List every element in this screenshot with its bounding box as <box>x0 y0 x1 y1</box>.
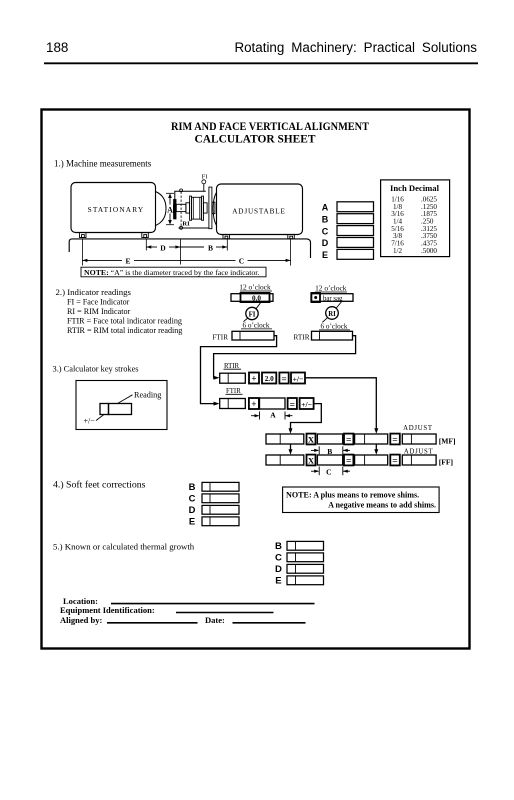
svg-text:E: E <box>275 575 282 586</box>
dimension A label <box>167 205 174 214</box>
svg-text:FI = Face Indicator: FI = Face Indicator <box>67 298 130 307</box>
svg-text:A negative means to add shims.: A negative means to add shims. <box>328 501 436 510</box>
baseplate ground line <box>69 239 310 258</box>
svg-text:Inch Decimal: Inch Decimal <box>390 183 440 193</box>
svg-text:C: C <box>322 226 329 236</box>
bracket clamp plate <box>173 199 176 219</box>
MF equals key 1 <box>344 434 353 445</box>
svg-text:A: A <box>167 206 173 215</box>
svg-text:.5000: .5000 <box>421 247 437 255</box>
coupling left flange <box>190 196 192 220</box>
aligned by line <box>107 622 198 624</box>
svg-text:RI = RIM Indicator: RI = RIM Indicator <box>67 307 131 316</box>
RTIR row underline <box>224 368 242 370</box>
legend +/- pointer <box>96 415 104 421</box>
svg-text:NOTE: “A” is the diameter trac: NOTE: “A” is the diameter traced by the … <box>84 268 259 277</box>
FI top reading box <box>231 294 273 302</box>
svg-text:A: A <box>322 203 329 213</box>
FF adjust pair <box>402 455 436 465</box>
sheet frame <box>42 110 470 649</box>
svg-text:C: C <box>189 492 196 503</box>
svg-text:188: 188 <box>46 40 68 55</box>
FTIR equals key <box>288 398 297 409</box>
dimension E line <box>82 259 122 261</box>
svg-text:+: + <box>251 374 256 384</box>
legend box frame <box>76 381 167 430</box>
svg-text:12 o’clock: 12 o’clock <box>239 282 271 291</box>
location line <box>111 603 315 605</box>
shaft stationary <box>176 204 186 211</box>
extension tick adjustable right foot <box>290 239 292 266</box>
svg-text:E: E <box>189 515 195 526</box>
adjustable machine body <box>217 184 303 235</box>
svg-text:NOTE: A plus means to remove s: NOTE: A plus means to remove shims. <box>286 491 419 500</box>
soft foot D box <box>202 505 239 514</box>
svg-text:[FF]: [FF] <box>439 458 453 467</box>
legend sample sign box <box>100 404 109 415</box>
svg-text:FI: FI <box>202 174 208 181</box>
svg-text:RTIR = RIM total indicator rea: RTIR = RIM total indicator reading <box>67 326 182 335</box>
measurement C box <box>337 226 374 236</box>
dimension A bottom cap <box>166 224 174 226</box>
svg-text:4.) Soft feet corrections: 4.) Soft feet corrections <box>53 479 146 490</box>
thermal D box <box>287 564 324 573</box>
FF row pair1 <box>266 455 304 465</box>
svg-text:3.) Calculator key strokes: 3.) Calculator key strokes <box>53 364 139 373</box>
RI top reading box <box>311 294 353 302</box>
svg-text:D: D <box>322 238 329 248</box>
svg-text:E: E <box>125 257 130 266</box>
svg-text:[MF]: [MF] <box>439 437 456 446</box>
soft foot E box <box>202 517 239 526</box>
svg-text:6 o’clock: 6 o’clock <box>243 322 270 330</box>
svg-text:+: + <box>251 399 256 409</box>
A dimension under FTIR row <box>251 415 258 417</box>
stationary machine body <box>71 183 156 233</box>
inch decimal table frame <box>381 180 450 257</box>
wire FTIR to keystroke row <box>201 336 277 404</box>
svg-text:Aligned by:: Aligned by: <box>60 615 102 625</box>
svg-text:C: C <box>326 468 331 477</box>
svg-text:X: X <box>308 434 315 444</box>
dimension B line <box>180 246 204 248</box>
svg-text:1/2: 1/2 <box>393 247 403 255</box>
note box machine <box>81 267 266 277</box>
wire RTIR to keystroke row <box>214 336 356 378</box>
svg-text:RTIR: RTIR <box>294 333 310 341</box>
svg-text:2.0: 2.0 <box>265 375 274 383</box>
svg-text:=: = <box>281 375 286 385</box>
svg-text:D: D <box>160 243 166 252</box>
FI dial stem down <box>244 318 249 322</box>
svg-text:+/−: +/− <box>293 374 304 383</box>
MF adjust pair <box>402 434 436 444</box>
RI 6 o'clock underline <box>319 329 350 331</box>
bracket arm bottom <box>179 227 209 229</box>
wire RTIR result to MF row <box>305 378 376 430</box>
shims note box <box>283 487 440 513</box>
svg-text:2.) Indicator readings: 2.) Indicator readings <box>56 287 132 297</box>
header rule <box>44 62 478 64</box>
FTIR row reading box <box>220 399 246 409</box>
svg-text:=: = <box>290 400 295 410</box>
RTIR divide key <box>249 373 259 384</box>
swing circle bottom <box>180 226 183 229</box>
B dimension under MF row <box>311 449 318 451</box>
svg-text:0.0: 0.0 <box>252 294 261 302</box>
svg-text:C: C <box>275 552 282 563</box>
FI dial circle <box>246 307 258 319</box>
svg-text:Date:: Date: <box>205 615 225 625</box>
FTIR row underline <box>226 393 243 395</box>
svg-text:B: B <box>322 214 329 224</box>
dimension C line <box>180 259 235 261</box>
FI indicator dial <box>202 180 206 184</box>
thermal E box <box>287 576 324 585</box>
date line <box>233 622 306 624</box>
svg-text:RI: RI <box>182 221 190 228</box>
svg-text:CALCULATOR SHEET: CALCULATOR SHEET <box>195 132 316 146</box>
RI dial stem up <box>336 302 342 309</box>
svg-text:RTIR: RTIR <box>224 363 240 370</box>
RI dial circle <box>326 307 339 320</box>
extension tick centerline <box>179 239 181 265</box>
stationary end bell <box>156 192 167 226</box>
RTIR reading box <box>312 331 353 340</box>
adjustable left foot <box>223 235 230 239</box>
coupling hub body <box>192 197 202 219</box>
svg-text:=: = <box>346 457 351 467</box>
extension tick stationary right foot <box>145 239 147 251</box>
MF pair2 <box>355 434 388 444</box>
inch decimal rows <box>391 195 437 254</box>
FI zero set box <box>241 293 270 302</box>
svg-text:FTIR: FTIR <box>212 333 228 341</box>
MF B box <box>317 434 342 444</box>
adjustable right foot <box>288 235 295 239</box>
svg-text:D: D <box>189 504 196 515</box>
FTIR divide key <box>249 398 259 409</box>
equipment identification line <box>176 612 274 614</box>
svg-text:C: C <box>239 257 244 266</box>
RI 12 o'clock underline <box>315 291 347 293</box>
extension tick left foot <box>81 239 83 266</box>
thermal B box <box>287 541 324 550</box>
MF equals key 2 <box>390 434 400 445</box>
stationary right foot <box>142 233 149 238</box>
RTIR equals key <box>279 373 288 384</box>
svg-text:12 o’clock: 12 o’clock <box>315 283 347 292</box>
FF equals key 1 <box>344 455 353 466</box>
stationary left foot <box>80 233 87 238</box>
FF C box <box>317 455 342 465</box>
coupling right spacer <box>204 203 208 213</box>
FI 12 o'clock underline <box>240 290 272 292</box>
MF row pair1 <box>266 434 304 444</box>
svg-text:Rotating Machinery: Practical: Rotating Machinery: Practical Solutions <box>234 40 477 55</box>
svg-text:ADJUST: ADJUST <box>403 425 433 432</box>
svg-text:=: = <box>392 436 397 446</box>
svg-text:6 o’clock: 6 o’clock <box>321 323 348 331</box>
svg-text:=: = <box>346 436 351 446</box>
RI bar sag box <box>311 293 320 302</box>
measurement A box <box>337 202 374 212</box>
RI dial stem down <box>322 317 328 322</box>
svg-text:E: E <box>322 250 328 260</box>
swing circle top <box>180 189 183 192</box>
legend sample reading box <box>109 404 132 415</box>
MF multiply key <box>307 434 316 445</box>
thermal C box <box>287 553 324 562</box>
extension tick adjustable left foot <box>226 239 228 251</box>
RTIR row reading box <box>220 373 246 383</box>
adjustable end bell <box>213 193 216 226</box>
adjustable shaft stub <box>212 202 215 214</box>
svg-text:ADJUSTABLE: ADJUSTABLE <box>232 208 285 216</box>
soft foot B box <box>202 482 239 491</box>
face indicator swing line <box>180 192 182 227</box>
adjustable disc plate <box>209 187 212 229</box>
C dimension under FF row <box>311 470 318 472</box>
svg-text:5.) Known or calculated therma: 5.) Known or calculated thermal growth <box>53 542 195 552</box>
svg-text:Equipment Identification:: Equipment Identification: <box>60 605 155 615</box>
soft foot C box <box>202 494 239 503</box>
coupling right flange <box>202 196 204 220</box>
FTIR plusminus key <box>300 398 314 409</box>
FTIR reading box <box>232 331 274 340</box>
pass arrow MF to FF left <box>290 444 292 451</box>
RTIR plusminus key <box>291 373 305 384</box>
pass arrow MF to FF right <box>375 444 377 451</box>
svg-text:A: A <box>270 411 276 420</box>
RTIR 2.0 key <box>262 373 276 384</box>
svg-text:bar sag: bar sag <box>323 295 343 302</box>
svg-text:B: B <box>208 243 213 252</box>
svg-text:=: = <box>392 457 397 467</box>
svg-text:B: B <box>189 481 196 492</box>
dimension A arrow <box>169 196 171 223</box>
FF multiply key <box>307 455 316 466</box>
FF equals key 2 <box>390 455 400 466</box>
dimension A top cap <box>166 192 174 194</box>
svg-text:ADJUST: ADJUST <box>404 448 434 455</box>
measurement E box <box>337 249 374 259</box>
svg-text:+/−: +/− <box>84 417 96 426</box>
svg-text:X: X <box>308 455 315 465</box>
svg-text:+/−: +/− <box>301 400 312 409</box>
svg-text:D: D <box>275 564 282 575</box>
legend pointer line <box>118 395 133 404</box>
svg-text:FI: FI <box>249 311 256 318</box>
FF pair2 <box>355 455 388 465</box>
dimension D line <box>146 246 157 248</box>
svg-text:RI: RI <box>328 311 336 318</box>
FI dial stem up <box>256 302 262 310</box>
svg-text:FTIR = Face total indicator re: FTIR = Face total indicator reading <box>67 317 182 326</box>
FTIR A box <box>260 398 286 409</box>
svg-text:STATIONARY: STATIONARY <box>88 205 145 214</box>
measurement B box <box>337 214 374 224</box>
measurement D box <box>337 238 374 248</box>
svg-text:B: B <box>275 541 282 552</box>
svg-text:1.) Machine measurements: 1.) Machine measurements <box>54 158 152 168</box>
FI 6 o'clock underline <box>241 328 272 330</box>
svg-text:Reading: Reading <box>134 390 161 399</box>
bracket arm top <box>175 191 206 199</box>
wire FTIR result to MF row <box>291 404 322 430</box>
coupling left spacer <box>186 203 190 213</box>
